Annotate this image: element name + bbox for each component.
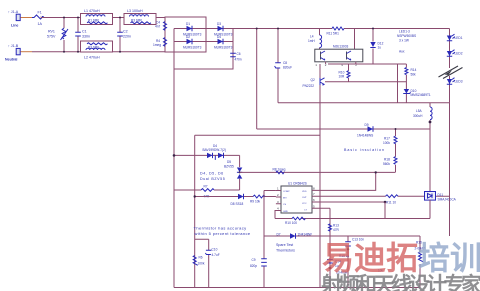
capacitor C13: [339, 236, 364, 288]
svg-text:100k: 100k: [198, 262, 205, 266]
svg-text:MJE13003: MJE13003: [333, 45, 348, 49]
svg-text:C9: C9: [252, 258, 256, 262]
svg-text:1u: 1u: [378, 46, 382, 50]
svg-text:L5A: L5A: [416, 109, 423, 113]
svg-text:GND: GND: [283, 211, 288, 213]
svg-text:↑ J1-A: ↑ J1-A: [8, 10, 19, 14]
svg-text:U1 CR6842S: U1 CR6842S: [288, 182, 307, 186]
svg-text:1: 1: [315, 63, 317, 67]
resistor R17: [383, 128, 397, 172]
svg-text:R6: R6: [199, 256, 203, 260]
svg-text:MMSZ4689T1: MMSZ4689T1: [411, 93, 431, 97]
inductor L1 / R1 filter box top: [81, 9, 113, 25]
pin5 wire: [316, 208, 330, 287]
bridge box: [174, 29, 233, 70]
annotation dual diodes: [200, 172, 225, 181]
transistor Q1a: [321, 51, 326, 60]
diode D10 zener: [403, 89, 431, 97]
spark gap: [439, 66, 463, 79]
svg-text:LED1-3: LED1-3: [399, 30, 410, 34]
cs rail: [264, 235, 420, 237]
svg-text:D2: D2: [186, 35, 190, 39]
resistor R18: [383, 157, 397, 167]
LED chain rail: [449, 29, 451, 103]
resistor R16: [415, 236, 426, 288]
watermark gray: [321, 269, 480, 291]
svg-text:Q2: Q2: [311, 78, 315, 82]
wire neutral to filter: [32, 51, 81, 53]
svg-text:Neutral: Neutral: [5, 58, 17, 62]
wire under switch box: [326, 62, 407, 64]
gnd rail mid: [275, 200, 430, 219]
LED2: [447, 50, 463, 57]
capacitor C4 on box A edge: [155, 21, 167, 31]
capacitor C2: [117, 17, 131, 53]
svg-text:Thermistors: Thermistors: [276, 249, 295, 253]
LED module label: [397, 30, 416, 54]
svg-text:L4: L4: [310, 35, 314, 39]
diode D4: [214, 35, 233, 50]
resistor R11b: [386, 195, 398, 205]
switch box pin numbers: [315, 63, 357, 67]
LED3: [447, 78, 463, 85]
svg-text:Thermistor has accuracy: Thermistor has accuracy: [194, 226, 247, 231]
svg-text:100k: 100k: [383, 141, 390, 145]
svg-text:R14: R14: [411, 68, 417, 72]
svg-text:LED3: LED3: [455, 80, 463, 84]
IC U1: [281, 182, 312, 214]
svg-text:R10 100: R10 100: [285, 221, 297, 225]
svg-text:330n: 330n: [82, 35, 90, 39]
svg-text:R17: R17: [384, 137, 390, 141]
svg-text:300uH: 300uH: [413, 114, 423, 118]
capacitor C14: [327, 260, 383, 275]
resistor R14: [405, 64, 417, 103]
svg-text:C10: C10: [212, 248, 218, 252]
svg-text:D3: D3: [217, 22, 221, 26]
svg-text:7: 7: [313, 192, 315, 196]
transistor box U2: [315, 45, 363, 62]
svg-text:Aux: Aux: [399, 50, 405, 54]
svg-text:D7: D7: [277, 233, 281, 237]
transistor Q2: [303, 64, 407, 288]
connector J1-A: [8, 10, 20, 28]
svg-text:4: 4: [277, 207, 279, 211]
svg-text:1N4148W: 1N4148W: [298, 233, 312, 237]
svg-text:F1: F1: [38, 11, 42, 15]
svg-text:6: 6: [313, 198, 315, 202]
wire port2 lead: [21, 51, 33, 53]
svg-text:NSPW500BS: NSPW500BS: [397, 34, 416, 38]
varistor RV1: [47, 17, 68, 53]
resistor R8: [273, 168, 286, 174]
resistor R2 / inductor L2 filter box bottom: [81, 41, 113, 60]
svg-text:OUT: OUT: [302, 197, 307, 199]
svg-text:Spare Test: Spare Test: [276, 243, 293, 247]
wire stage2 to box A: [156, 17, 165, 19]
feedback drop: [194, 135, 196, 287]
svg-text:4n7: 4n7: [155, 25, 161, 29]
svg-text:CS: CS: [283, 204, 287, 206]
svg-text:D5: D5: [227, 160, 231, 164]
svg-text:1: 1: [277, 187, 279, 191]
svg-text:LED2: LED2: [455, 52, 463, 56]
fuse F1: [32, 11, 43, 27]
svg-text:L1 470uH: L1 470uH: [84, 9, 100, 13]
resistor R4 on box A edge: [153, 38, 167, 48]
inductor L3 / R3 filter box stage2: [124, 9, 156, 25]
inductor L4: [308, 29, 322, 50]
svg-text:3: 3: [277, 200, 279, 204]
wire between filter stages bottom: [113, 51, 166, 53]
capacitor C1: [75, 17, 90, 53]
svg-text:Basic insulation: Basic insulation: [344, 148, 385, 152]
rail drop node B1: [256, 29, 258, 130]
mid rail VCC: [278, 102, 450, 104]
svg-text:R11 5R1: R11 5R1: [327, 32, 340, 36]
diode D1: [183, 22, 202, 37]
annotation spare test: [276, 243, 295, 253]
pin6 wire: [316, 201, 386, 219]
svg-text:D11: D11: [438, 193, 444, 197]
svg-text:D4: D4: [217, 35, 221, 39]
svg-text:8: 8: [313, 186, 315, 190]
svg-text:C2: C2: [123, 30, 128, 34]
inductor L5A: [413, 103, 432, 192]
svg-text:VDD: VDD: [302, 191, 307, 193]
svg-text:560k: 560k: [383, 162, 390, 166]
svg-text:470n: 470n: [235, 58, 242, 62]
svg-text:C8: C8: [283, 61, 287, 65]
U1 left pins: [276, 187, 290, 213]
svg-text:L2 470uH: L2 470uH: [84, 56, 100, 60]
annotation thermistor: [194, 226, 251, 237]
svg-text:within 5 percent tolerance: within 5 percent tolerance: [195, 231, 251, 236]
feedback rail: [195, 134, 320, 136]
svg-text:56k: 56k: [411, 73, 417, 77]
resistor R7: [174, 185, 240, 199]
svg-text:L3 100uH: L3 100uH: [127, 9, 143, 13]
diode D3: [214, 22, 233, 37]
gate rail pin7: [316, 195, 450, 197]
svg-text:MURS160T3: MURS160T3: [183, 46, 202, 50]
svg-text:820p: 820p: [250, 264, 257, 268]
diode D7: [277, 233, 312, 239]
diode D9: [357, 123, 373, 138]
svg-text:Line: Line: [11, 24, 18, 28]
svg-text:1mH: 1mH: [308, 39, 315, 43]
svg-text:VCC: VCC: [302, 203, 307, 205]
svg-text:COMP: COMP: [283, 191, 290, 193]
svg-text:D9: D9: [365, 123, 369, 127]
resistor R10b under box: [339, 64, 351, 82]
svg-text:C6: C6: [237, 52, 241, 56]
vertical aux drop: [397, 64, 399, 103]
fb input rail: [195, 196, 276, 198]
comp rail: [240, 171, 396, 173]
svg-text:R9 10k: R9 10k: [250, 200, 261, 204]
svg-text:575V: 575V: [47, 35, 56, 39]
svg-text:C1: C1: [82, 30, 87, 34]
transistor Q1b: [347, 51, 352, 60]
svg-text:BAV199DW-7(2): BAV199DW-7(2): [203, 148, 226, 152]
svg-text:D8 SS18: D8 SS18: [231, 202, 244, 206]
svg-text:R11 10: R11 10: [386, 201, 396, 205]
resistor R9: [250, 195, 265, 203]
svg-text:R8 1meg: R8 1meg: [273, 168, 286, 172]
svg-text:10R: 10R: [339, 75, 346, 79]
svg-text:5: 5: [313, 204, 315, 208]
wire rail to switch box: [354, 29, 356, 50]
svg-text:820uF: 820uF: [283, 66, 292, 70]
svg-text:↑ J1-B: ↑ J1-B: [8, 44, 19, 48]
svg-text:INV: INV: [283, 197, 287, 199]
svg-text:2: 2: [277, 193, 279, 197]
diode D5 zener pair: [224, 155, 242, 190]
top rail: [174, 28, 450, 30]
wire between filter stages top: [113, 17, 125, 19]
TVS D11: [425, 192, 457, 202]
wire port1 lead: [21, 17, 33, 19]
bottom rail: [174, 287, 420, 289]
connector J1-B: [5, 44, 20, 62]
svg-text:Dual BZV55: Dual BZV55: [200, 177, 225, 181]
watermark red: [322, 233, 480, 279]
svg-text:D4, D5, D6: D4, D5, D6: [200, 172, 224, 176]
capacitor C6 on bridge right edge: [230, 52, 242, 62]
svg-text:R7: R7: [204, 185, 208, 189]
svg-text:R13: R13: [333, 224, 339, 228]
svg-text:1N4148WS: 1N4148WS: [357, 134, 373, 138]
svg-text:1A: 1A: [38, 22, 43, 26]
left return rail: [173, 69, 175, 288]
svg-text:RV1: RV1: [48, 30, 55, 34]
damper box A: [165, 17, 206, 52]
resistor R13: [329, 224, 340, 233]
svg-text:SMAJ400CA: SMAJ400CA: [438, 198, 457, 202]
LED1: [447, 34, 463, 41]
pin8 riser: [316, 171, 377, 190]
resistor R6: [193, 256, 205, 266]
capacitor C10: [195, 239, 220, 287]
svg-text:47R: 47R: [333, 228, 340, 232]
svg-text:3 x 1W: 3 x 1W: [399, 39, 409, 43]
wire fuse to filter: [41, 17, 81, 19]
svg-text:MURS160T3: MURS160T3: [214, 46, 233, 50]
svg-text:LED1: LED1: [455, 36, 463, 40]
svg-text:1meg: 1meg: [153, 43, 161, 47]
led return drop: [449, 103, 451, 236]
diode D12 vertical: [370, 28, 383, 65]
vdd cap drop: [250, 191, 276, 288]
svg-text:220n: 220n: [123, 35, 131, 39]
sense rail: [257, 128, 430, 130]
svg-text:4.7uF: 4.7uF: [212, 253, 220, 257]
diode D8: [194, 194, 244, 206]
U1 right pins: [302, 186, 316, 211]
resistor R10c: [285, 217, 305, 225]
svg-text:CT: CT: [304, 209, 308, 211]
svg-text:R18: R18: [384, 158, 390, 162]
diode D2: [183, 35, 202, 50]
svg-text:D1: D1: [186, 22, 190, 26]
diode D4 dual: [173, 144, 240, 160]
resistor R11 on top rail: [327, 27, 345, 36]
svg-text:BZV55: BZV55: [224, 165, 234, 169]
svg-text:PN2222: PN2222: [303, 84, 315, 88]
capacitor C8 vertical: [275, 28, 292, 103]
